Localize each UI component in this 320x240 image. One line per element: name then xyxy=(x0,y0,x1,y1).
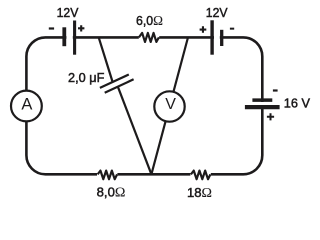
battery B1 negative short plate xyxy=(62,27,66,46)
battery B3 positive long plate xyxy=(245,105,280,109)
resistor R2 wire gap xyxy=(97,171,117,177)
battery B1 plus sign xyxy=(78,25,84,31)
svg-text:12V: 12V xyxy=(57,5,79,20)
svg-text:V: V xyxy=(165,96,176,113)
resistor R1 6.0 ohm zigzag xyxy=(139,33,159,42)
battery B2 plus sign xyxy=(200,26,207,33)
wire main loop rounded rectangle xyxy=(26,37,262,174)
capacitor C1 wire-side plate xyxy=(100,75,129,88)
battery B3 minus sign xyxy=(273,89,278,91)
battery B3 plus sign xyxy=(267,113,274,120)
wire capacitor branch lower segment xyxy=(118,87,152,175)
voltmeter V1 circle xyxy=(154,91,184,121)
svg-text:16 V: 16 V xyxy=(284,96,311,111)
svg-text:18Ω: 18Ω xyxy=(187,185,212,201)
svg-text:A: A xyxy=(21,96,32,114)
svg-text:12V: 12V xyxy=(206,5,228,20)
resistor R2 8.0 ohm zigzag xyxy=(98,171,118,180)
capacitor C1 lower plate xyxy=(105,79,134,93)
battery B2 wire gap xyxy=(214,31,220,44)
resistor R3 wire gap xyxy=(190,171,210,177)
svg-text:6,0Ω: 6,0Ω xyxy=(136,13,163,29)
battery B2 minus sign xyxy=(230,28,234,30)
svg-text:8,0Ω: 8,0Ω xyxy=(97,185,126,201)
battery B1 minus sign xyxy=(49,27,54,29)
resistor R1 wire gap xyxy=(139,34,159,40)
resistor R3 18 ohm zigzag xyxy=(191,171,211,180)
battery B1 positive tall plate xyxy=(73,21,76,55)
battery B3 wire gap xyxy=(255,102,270,105)
svg-text:2,0 μF: 2,0 μF xyxy=(68,71,105,85)
wire voltmeter branch xyxy=(151,37,188,174)
battery B1 wire gap xyxy=(66,31,72,44)
battery B2 positive tall plate xyxy=(210,20,213,54)
ammeter A1 circle xyxy=(11,91,42,122)
battery B2 negative short plate xyxy=(220,30,223,46)
wire capacitor branch upper segment xyxy=(99,37,113,82)
battery B3 negative short plate xyxy=(252,98,272,102)
